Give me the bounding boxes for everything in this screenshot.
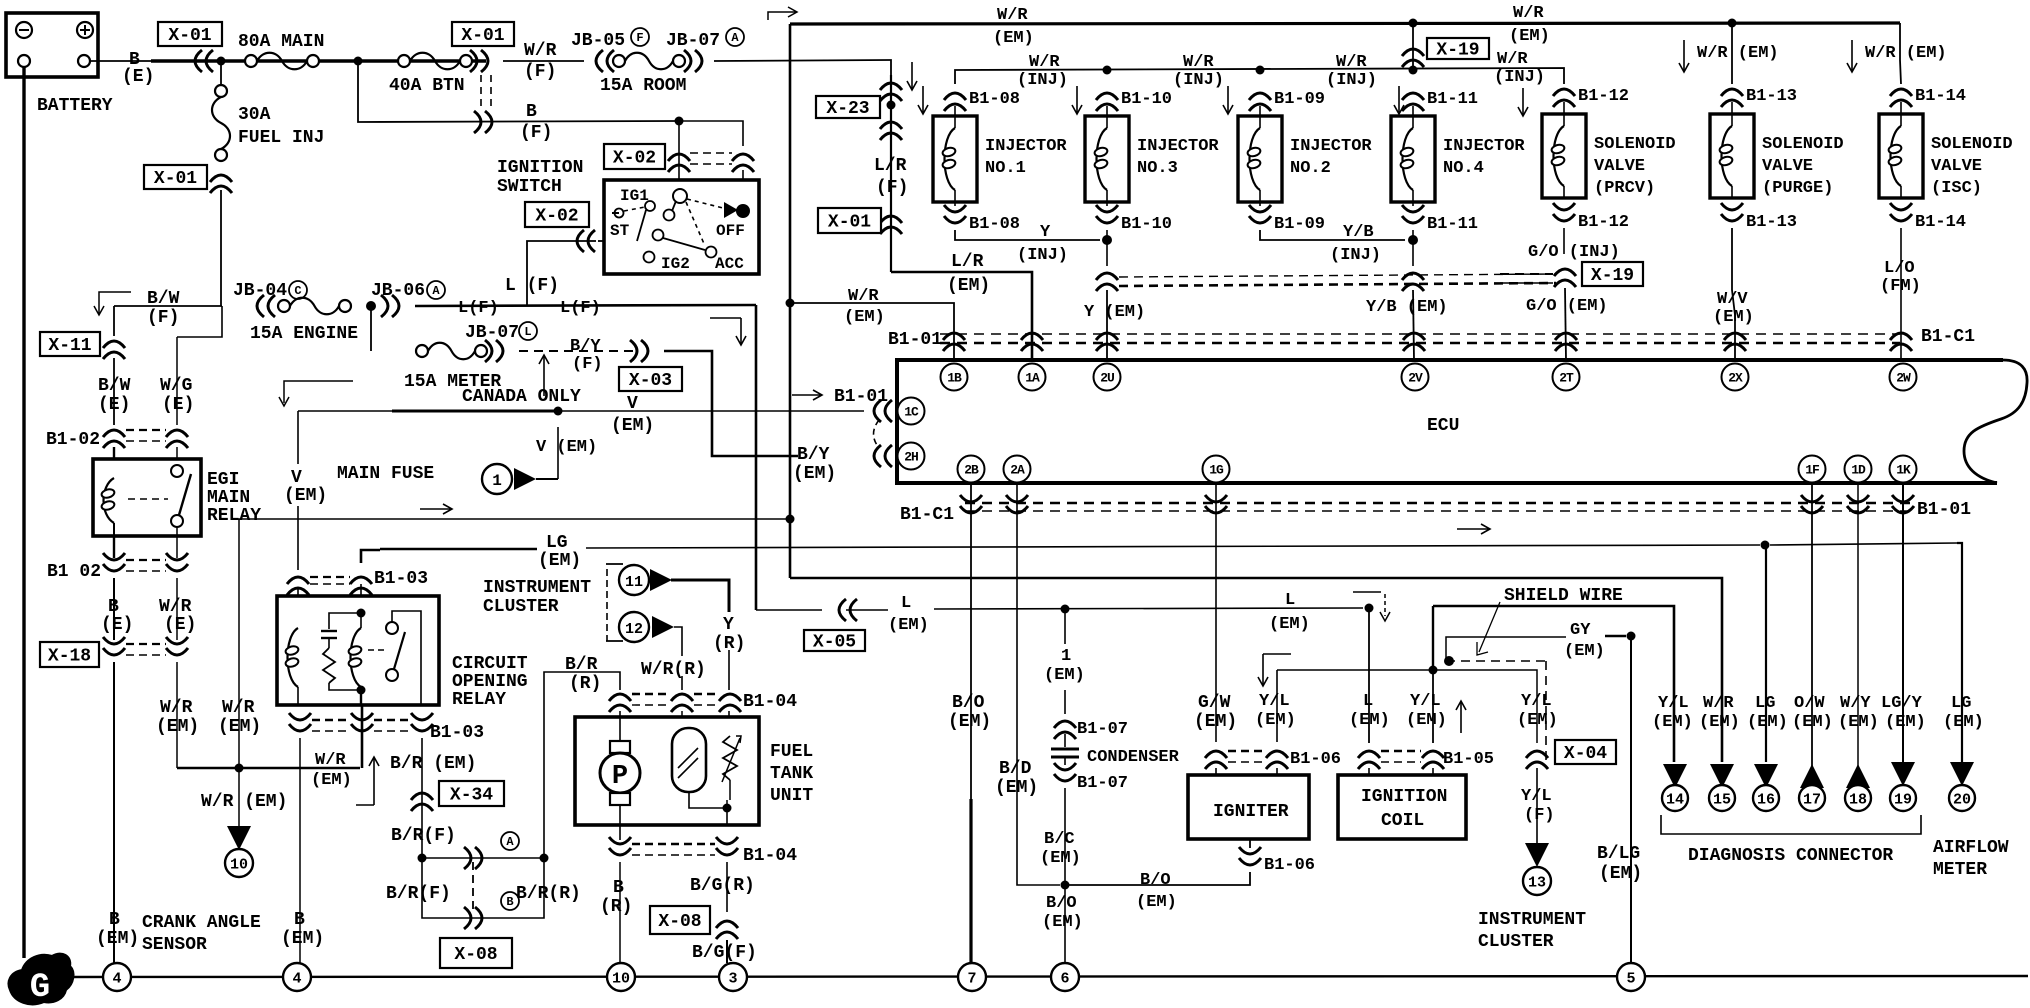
node Y INJ junction [1102, 235, 1112, 245]
svg-text:(EM): (EM) [888, 616, 929, 635]
fuse 30A FUEL INJ [212, 85, 324, 161]
svg-text:W/R: W/R [524, 41, 557, 61]
svg-text:L/R: L/R [951, 252, 984, 272]
svg-text:B1-08: B1-08 [969, 90, 1020, 109]
ECU pin 1G [1203, 456, 1230, 483]
flow arrow B/W [94, 292, 131, 315]
connector X-19 chevron mid [1500, 262, 1643, 287]
svg-text:W/R(R): W/R(R) [641, 660, 706, 680]
svg-text:B1-08: B1-08 [969, 215, 1020, 234]
svg-text:L: L [901, 594, 911, 613]
wire inj2 to Y/B (INJ) [1260, 223, 1405, 265]
svg-text:INSTRUMENT: INSTRUMENT [1478, 910, 1586, 930]
svg-text:13: 13 [1528, 875, 1546, 892]
connector B1-02 chevrons [46, 430, 188, 450]
connector B1-04 chevrons lower [609, 837, 797, 866]
svg-text:X-04: X-04 [1564, 744, 1607, 764]
svg-text:80A MAIN: 80A MAIN [238, 32, 324, 52]
svg-text:(INJ): (INJ) [1330, 246, 1381, 265]
wire L (F) from engine fuse [415, 299, 756, 318]
svg-text:(EM): (EM) [538, 551, 581, 571]
svg-text:(EM): (EM) [844, 308, 885, 327]
svg-text:W/R: W/R [1336, 53, 1367, 72]
svg-text:Y/L: Y/L [1521, 692, 1552, 711]
flow arrow LG [420, 504, 452, 514]
node relay2 top junction [357, 609, 366, 618]
svg-text:(EM): (EM) [1564, 642, 1605, 661]
svg-text:B/O: B/O [1140, 871, 1171, 890]
svg-text:SHIELD WIRE: SHIELD WIRE [1504, 586, 1623, 606]
wire B/Y (EM) to ECU 2H [664, 351, 798, 456]
wire Y/L igniter drop [1255, 670, 1296, 742]
svg-text:14: 14 [1666, 792, 1684, 809]
connector X-01 LR [818, 208, 902, 234]
ground 6 [1051, 963, 1079, 991]
connector X-08 chevron right [650, 906, 738, 939]
svg-text:OFF: OFF [716, 222, 745, 240]
label B/R (R) [516, 884, 581, 904]
connector X-34 chevron [411, 781, 504, 811]
svg-text:SOLENOID: SOLENOID [1931, 135, 2013, 154]
svg-text:(EM): (EM) [1255, 711, 1296, 730]
svg-text:FUEL INJ: FUEL INJ [238, 128, 324, 148]
svg-text:L: L [1285, 591, 1295, 610]
svg-text:V: V [291, 468, 302, 488]
wire LG (EM) long [380, 543, 1957, 549]
svg-text:B/W: B/W [147, 289, 180, 309]
svg-text:18: 18 [1849, 792, 1867, 809]
svg-text:(INJ): (INJ) [1017, 71, 1068, 90]
fuel sender float [672, 728, 725, 808]
connector X-08 label (left) [440, 938, 512, 968]
wire B/O to ground 6 [1042, 885, 1083, 963]
svg-text:(EM): (EM) [1747, 713, 1788, 732]
svg-text:Y/L: Y/L [1410, 692, 1441, 711]
wire I EM down [1044, 609, 1085, 685]
wire into switch hub [679, 121, 743, 196]
label B/R (F) lower [386, 884, 451, 904]
wire 30A output down to B/W row [220, 190, 222, 306]
svg-text:(EM): (EM) [156, 717, 199, 737]
svg-text:(EM): (EM) [218, 717, 261, 737]
svg-text:A: A [731, 31, 739, 45]
wire Y/L into coil [1406, 670, 1447, 743]
svg-text:LG/Y: LG/Y [1881, 694, 1923, 713]
svg-text:B1-10: B1-10 [1121, 215, 1172, 234]
connector B1-03 chevrons lower [289, 713, 484, 743]
svg-text:Y (EM): Y (EM) [1084, 303, 1145, 322]
node feed inj3 [1103, 66, 1112, 75]
svg-text:(EM): (EM) [1040, 849, 1081, 868]
svg-text:INJECTOR: INJECTOR [985, 137, 1067, 156]
svg-text:(EM): (EM) [1509, 27, 1550, 46]
wire W/R (EM) spine [789, 24, 792, 578]
svg-text:W/R: W/R [1497, 50, 1528, 69]
svg-text:B/C: B/C [1044, 830, 1075, 849]
svg-text:BATTERY: BATTERY [37, 96, 113, 116]
svg-text:B1-11: B1-11 [1427, 90, 1478, 109]
connector X-18 chevrons [103, 637, 188, 655]
svg-text:DIAGNOSIS CONNECTOR: DIAGNOSIS CONNECTOR [1688, 846, 1893, 866]
svg-text:(EM): (EM) [1194, 712, 1237, 732]
wire L/R (EM) to ECU 1A [891, 252, 1032, 360]
svg-text:(ISC): (ISC) [1931, 179, 1982, 198]
svg-text:X-01: X-01 [168, 26, 211, 46]
svg-text:W/R: W/R [222, 698, 255, 718]
svg-text:2H: 2H [904, 450, 918, 465]
svg-text:X-03: X-03 [629, 371, 672, 391]
arrow diag 19 [1890, 762, 1916, 811]
arrow canada only [462, 355, 581, 407]
connector X-18 label [40, 642, 99, 667]
wire LG to diag 16 [1765, 545, 1767, 762]
svg-text:A: A [506, 835, 514, 849]
wire B/G (F) to ground 3 [692, 940, 757, 963]
label L/R (F) [874, 156, 908, 198]
wire purge feed [1679, 23, 1779, 84]
svg-text:(EM): (EM) [311, 771, 352, 790]
connector JB-07 A [666, 28, 744, 72]
svg-text:(EM): (EM) [96, 929, 139, 949]
wire L (EM) row [756, 591, 1363, 635]
wire diag col 17 O/W [1811, 483, 1813, 786]
wire V (EM) horizontal [298, 410, 864, 412]
solenoid valve PURGE [1710, 87, 1844, 232]
wire W/R (INJ) feed line [955, 50, 1564, 90]
wire Y/L coil drop [1432, 606, 1434, 670]
svg-text:B/Y: B/Y [570, 337, 601, 356]
svg-text:B1-03: B1-03 [374, 569, 428, 589]
ground bus [64, 976, 2028, 977]
label V (EM) right [611, 394, 654, 436]
svg-text:(EM): (EM) [995, 778, 1038, 798]
arrow B1-05 up [1456, 701, 1466, 733]
svg-text:B1-14: B1-14 [1915, 213, 1966, 232]
svg-text:X-01: X-01 [828, 213, 871, 233]
relay2 coil V [285, 628, 300, 705]
svg-text:W/G: W/G [160, 376, 192, 396]
svg-text:B/O: B/O [1046, 894, 1077, 913]
svg-text:(EM): (EM) [1699, 713, 1740, 732]
svg-text:4: 4 [292, 971, 301, 988]
connector JB-05 F [571, 28, 649, 72]
condenser C1 [1051, 734, 1180, 767]
node Y/B junction [1408, 235, 1418, 245]
svg-text:CIRCUIT: CIRCUIT [452, 654, 528, 674]
wire W/R (E) down [159, 578, 196, 640]
svg-text:20: 20 [1953, 792, 1971, 809]
wire L to ignition coil [1349, 608, 1390, 743]
svg-text:W/R: W/R [160, 698, 193, 718]
wire B/D (EM) 2A [995, 483, 1060, 885]
svg-text:JB-07: JB-07 [666, 31, 720, 51]
wire G/O (EM) to ECU 2T [1526, 288, 1608, 360]
wire B (E) down [101, 578, 133, 640]
ground 5 [1617, 963, 1645, 991]
svg-text:3: 3 [728, 971, 737, 988]
svg-text:W/Y: W/Y [1840, 694, 1871, 713]
svg-text:W/R (EM): W/R (EM) [1697, 44, 1779, 63]
svg-text:B1-03: B1-03 [430, 723, 484, 743]
svg-text:B/R(F): B/R(F) [391, 826, 456, 846]
svg-text:(INJ): (INJ) [1494, 68, 1545, 87]
svg-text:2T: 2T [1559, 371, 1574, 386]
svg-text:B: B [526, 102, 537, 122]
connector X-01 label (right) [452, 22, 514, 46]
svg-text:X-01: X-01 [461, 26, 504, 46]
svg-text:16: 16 [1757, 792, 1775, 809]
svg-text:B/O: B/O [952, 693, 985, 713]
svg-text:B1-13: B1-13 [1746, 213, 1797, 232]
svg-text:5: 5 [1626, 971, 1635, 988]
ECU pin 2B [958, 456, 985, 483]
node W/R junction crank [235, 764, 244, 773]
svg-text:1A: 1A [1025, 371, 1040, 386]
relay2 cap and resistor branch [321, 613, 361, 690]
wire main bus battery to fuses [151, 59, 486, 63]
wire B/O (EM) 2B to ground 7 [948, 483, 991, 963]
node main bus junction A [217, 57, 226, 66]
svg-text:B/Y: B/Y [797, 445, 830, 465]
svg-text:P: P [612, 762, 628, 792]
svg-text:W/R (EM): W/R (EM) [201, 792, 287, 812]
svg-text:NO.1: NO.1 [985, 159, 1026, 178]
svg-text:SENSOR: SENSOR [142, 935, 207, 955]
svg-text:UNIT: UNIT [770, 786, 813, 806]
node B/R junction left [418, 854, 427, 863]
svg-text:AIRFLOW: AIRFLOW [1933, 838, 2009, 858]
svg-text:JB-05: JB-05 [571, 31, 625, 51]
arrow diag 16 [1753, 764, 1779, 811]
connector A/B dash link [472, 862, 474, 912]
connector X-02 chevron left [577, 230, 595, 252]
svg-text:W/R (EM): W/R (EM) [1865, 44, 1947, 63]
svg-text:(F): (F) [520, 123, 552, 143]
svg-text:G/O (INJ): G/O (INJ) [1528, 243, 1620, 262]
flow arrow W/R bracket [710, 318, 746, 345]
node top bus X19 [1409, 19, 1418, 28]
fuel tank unit box [575, 717, 813, 825]
svg-text:X-23: X-23 [826, 99, 869, 119]
connector chevrons B(F) [474, 111, 492, 133]
svg-text:2X: 2X [1728, 371, 1743, 386]
fuse 40A BTN [389, 53, 472, 96]
node feed inj2 [1256, 66, 1265, 75]
connector JB-04 C [233, 281, 307, 317]
label LG (EM) [538, 533, 581, 571]
node W/R spine LG tee [786, 515, 795, 524]
svg-text:2B: 2B [964, 463, 979, 478]
svg-text:CRANK ANGLE: CRANK ANGLE [142, 913, 261, 933]
fuel pump motor P [600, 711, 640, 840]
wire LG into box [298, 584, 361, 628]
connector X-03 chevron [630, 340, 648, 362]
svg-text:IG2: IG2 [661, 255, 690, 273]
ground 10 [607, 963, 635, 991]
svg-text:CONDENSER: CONDENSER [1087, 748, 1180, 767]
svg-text:B1-11: B1-11 [1427, 215, 1478, 234]
ECU pin 2T [1553, 364, 1580, 391]
wire B/LG (EM) to ground 5 [1597, 636, 1642, 963]
ECU pin 2A [1004, 456, 1031, 483]
svg-text:B1-04: B1-04 [743, 692, 797, 712]
connector X-23 [816, 83, 902, 140]
solenoid valve PRCV [1518, 87, 1676, 232]
svg-text:11: 11 [625, 574, 643, 591]
svg-text:B: B [294, 910, 305, 930]
svg-text:ACC: ACC [715, 255, 744, 273]
connector B1-01 upper bus [888, 327, 1975, 351]
wire B/W (F) row [114, 289, 222, 328]
svg-text:(E): (E) [122, 67, 154, 87]
svg-text:(R): (R) [713, 634, 745, 654]
svg-text:12: 12 [625, 621, 643, 638]
connector B1-06 below igniter [1239, 839, 1315, 875]
wire G/W (EM) 1G to igniter [1194, 483, 1237, 742]
svg-text:(EM): (EM) [281, 929, 324, 949]
svg-text:(EM): (EM) [1136, 893, 1177, 912]
ECU pin 2X [1722, 364, 1749, 391]
svg-text:(EM): (EM) [284, 486, 327, 506]
svg-text:(EM): (EM) [793, 464, 836, 484]
label MAIN FUSE [337, 464, 434, 484]
svg-text:B1-12: B1-12 [1578, 213, 1629, 232]
fuse 15A METER [404, 322, 537, 392]
svg-text:B1-06: B1-06 [1264, 856, 1315, 875]
wire W/R (EM) from relay [156, 662, 199, 768]
svg-text:LG: LG [1755, 694, 1775, 713]
svg-text:OPENING: OPENING [452, 672, 528, 692]
node B/R junction right [540, 854, 549, 863]
ECU pin 1D [1845, 456, 1872, 483]
svg-text:X-19: X-19 [1591, 266, 1634, 286]
wire inj3 down [1106, 230, 1108, 266]
svg-text:(EM): (EM) [611, 416, 654, 436]
svg-text:B/G(R): B/G(R) [690, 876, 755, 896]
svg-text:30A: 30A [238, 105, 271, 125]
svg-text:(EM): (EM) [948, 712, 991, 732]
svg-text:(EM): (EM) [1269, 615, 1310, 634]
arrow to cluster 13 [1478, 843, 1586, 952]
wire B/C (EM) [1040, 788, 1081, 885]
svg-text:B1-01: B1-01 [888, 330, 942, 350]
svg-text:B/R (EM): B/R (EM) [390, 754, 476, 774]
svg-text:2U: 2U [1100, 371, 1114, 386]
svg-text:15: 15 [1713, 792, 1731, 809]
wire W/R (EM) to crank sensor [201, 768, 287, 828]
connector Y (EM) chevron [1084, 273, 1556, 360]
svg-text:IGNITION: IGNITION [1361, 787, 1447, 807]
svg-text:INSTRUMENT: INSTRUMENT [483, 578, 591, 598]
svg-text:Y/B (EM): Y/B (EM) [1366, 298, 1448, 317]
svg-text:1G: 1G [1209, 463, 1224, 478]
svg-text:B1-14: B1-14 [1915, 87, 1966, 106]
connector X-02 label (lower) [525, 202, 589, 227]
svg-text:VALVE: VALVE [1762, 157, 1813, 176]
svg-text:L/R: L/R [874, 156, 907, 176]
svg-text:Y: Y [723, 615, 734, 635]
svg-text:(EM): (EM) [1713, 308, 1754, 327]
svg-text:(EM): (EM) [1599, 864, 1642, 884]
svg-text:Y: Y [1040, 223, 1051, 242]
svg-text:B: B [108, 597, 119, 617]
svg-text:X-34: X-34 [450, 786, 493, 806]
svg-text:X-08: X-08 [658, 912, 701, 932]
connector X-02 label (upper) [604, 144, 665, 169]
flow arrow L/R [907, 62, 917, 90]
svg-text:(EM): (EM) [1044, 666, 1085, 685]
injector No.1 [918, 86, 1067, 234]
wire Y/L igniter link [1277, 669, 1433, 671]
svg-text:B1-04: B1-04 [743, 846, 797, 866]
node top bus purge [1728, 19, 1737, 28]
instrument cluster bracket [483, 564, 623, 641]
fuse 15A ENGINE [250, 298, 358, 344]
wire W/R EM relay feed [361, 705, 364, 768]
svg-text:(F): (F) [572, 355, 603, 374]
svg-text:X-02: X-02 [535, 207, 578, 227]
connector JB-06 A [371, 281, 445, 317]
injector No.3 [1072, 86, 1219, 234]
svg-text:(F): (F) [147, 308, 179, 328]
svg-text:(EM): (EM) [1885, 713, 1926, 732]
svg-text:L(F): L(F) [458, 299, 499, 318]
ECU pin 2V [1402, 364, 1429, 391]
arrow diag 17 [1799, 764, 1825, 811]
wire B/G (R) [690, 862, 755, 912]
svg-text:FUEL: FUEL [770, 742, 813, 762]
battery BT1 [6, 13, 113, 116]
svg-text:6: 6 [1060, 971, 1069, 988]
svg-text:X-02: X-02 [613, 149, 656, 169]
svg-text:NO.2: NO.2 [1290, 159, 1331, 178]
node Y/L coil junction [1429, 666, 1438, 675]
connector B1-07 upper [1054, 690, 1128, 739]
svg-text:40A BTN: 40A BTN [389, 76, 465, 96]
svg-text:W/R: W/R [1183, 53, 1214, 72]
connector X-11 label [40, 332, 100, 356]
svg-text:(INJ): (INJ) [1326, 71, 1377, 90]
svg-text:V (EM): V (EM) [536, 438, 597, 457]
svg-text:B1-01: B1-01 [834, 387, 888, 407]
wire IG1 output left [598, 240, 604, 242]
svg-text:ECU: ECU [1427, 416, 1459, 436]
svg-text:IGNITION: IGNITION [497, 158, 583, 178]
ground 7 [958, 963, 986, 991]
node LG junction col16 [1761, 541, 1770, 550]
svg-text:Y/L: Y/L [1658, 694, 1689, 713]
wire LG (EM) from relay [361, 550, 380, 563]
circled 1 main fuse arrow [482, 427, 597, 494]
node GY junction [1627, 632, 1636, 641]
svg-text:W/R: W/R [159, 597, 192, 617]
flow arrow B1-01 right [1457, 524, 1490, 534]
connector B1-06 chevrons [1205, 750, 1341, 769]
wire 15A meter feed [370, 306, 372, 351]
svg-text:W/R: W/R [1513, 4, 1544, 23]
svg-text:B1-09: B1-09 [1274, 90, 1325, 109]
wire W/G (E) branch [160, 306, 222, 425]
svg-text:(EM): (EM) [1792, 713, 1833, 732]
svg-text:W/R: W/R [315, 751, 346, 770]
solenoid valve ISC [1879, 87, 2013, 232]
wire B (EM) to ground 4a [96, 662, 139, 963]
svg-text:B/LG: B/LG [1597, 844, 1640, 864]
connector chevrons into ECU 1C [874, 400, 892, 422]
svg-text:B1-C1: B1-C1 [1921, 327, 1975, 347]
wire B jumper [422, 858, 544, 918]
diagnosis connector bracket [1661, 815, 1921, 866]
